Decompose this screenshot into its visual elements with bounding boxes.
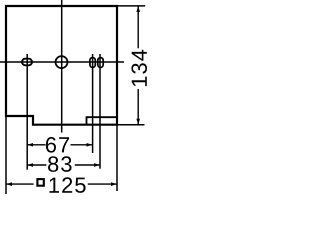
dim text 67 <box>46 137 69 153</box>
dim 83 arrow left <box>28 163 34 167</box>
left edge extension line <box>5 116 7 194</box>
dim text 125 <box>50 177 86 193</box>
dim text 134 (rotated) <box>131 50 147 86</box>
dim 67 arrow left <box>28 143 34 147</box>
horizontal centerline <box>0 61 124 63</box>
top extension line for 134 <box>117 5 145 7</box>
circle centerline vertical <box>61 0 63 133</box>
dim 125 arrow right <box>111 182 117 186</box>
dim 134 line top <box>137 6 139 48</box>
fixture body outline <box>6 6 117 125</box>
bottom extension line for 134 <box>117 124 145 126</box>
dim 125 line left <box>6 183 34 185</box>
dim 67 line left <box>27 144 45 146</box>
right edge extension line <box>116 125 118 191</box>
slot hole left <box>22 59 32 66</box>
dim 83 line left <box>27 164 46 166</box>
oval1 centerline vertical <box>92 54 94 153</box>
oval hole 2 <box>98 58 103 68</box>
adapter tab line bottom-right <box>87 117 118 125</box>
dim 134 line bottom <box>137 89 139 125</box>
dim text 83 <box>48 156 72 172</box>
circle hole <box>56 56 68 68</box>
dim 83 arrow right <box>94 163 100 167</box>
dim 67 arrow right <box>87 143 93 147</box>
oval2 centerline vertical <box>99 54 101 169</box>
dim 125 line right <box>88 183 117 185</box>
slot centerline vertical <box>26 54 28 170</box>
square symbol <box>37 179 43 186</box>
dim 134 arrow down <box>136 119 140 125</box>
dim 83 line right <box>75 164 100 166</box>
oval hole 1 <box>90 58 95 68</box>
dim 125 arrow left <box>7 182 13 186</box>
dim 67 line right <box>71 144 93 146</box>
dim 134 arrow up <box>136 6 140 11</box>
